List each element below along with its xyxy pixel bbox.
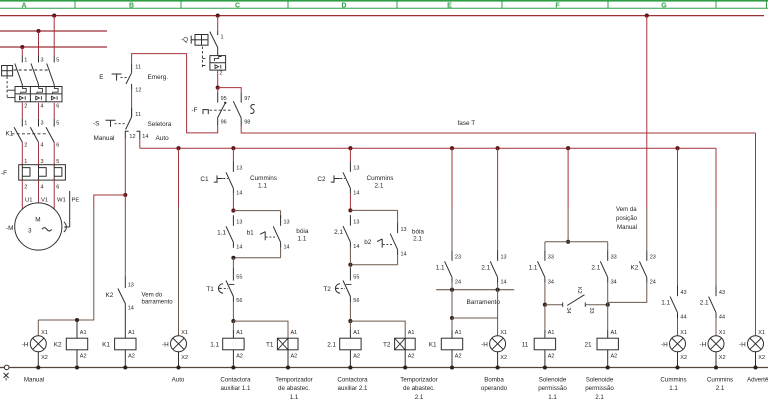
auxiliary contact 2.1 13/14 (bomba) xyxy=(481,250,506,285)
wire E 12 to -S 11 xyxy=(131,90,133,117)
svg-text:6: 6 xyxy=(56,184,59,190)
svg-text:M: M xyxy=(35,217,40,224)
svg-text:2.1: 2.1 xyxy=(327,341,336,348)
svg-text:K2: K2 xyxy=(576,287,582,294)
wire L1 to -Q xyxy=(217,16,219,31)
svg-text:11: 11 xyxy=(135,112,141,118)
svg-text:K1: K1 xyxy=(429,341,437,348)
svg-text:34: 34 xyxy=(611,279,617,285)
junction L2 to -Q1 xyxy=(36,29,40,33)
junction coil split 2.1/T2 xyxy=(348,319,352,323)
junction auto bus to C2 branch xyxy=(348,146,352,150)
svg-text:-F: -F xyxy=(191,107,197,114)
svg-text:-H: -H xyxy=(481,341,488,348)
svg-text:b1: b1 xyxy=(247,229,255,236)
svg-text:Manual: Manual xyxy=(94,135,115,142)
wire contact to lamp cummins 1.1 xyxy=(677,318,679,336)
svg-text:43: 43 xyxy=(719,290,725,296)
svg-text:5: 5 xyxy=(56,58,59,64)
junction barramento right xyxy=(496,288,500,292)
wire fase T drop to advert lamp xyxy=(755,133,757,207)
wire -F 96 to emergency riser xyxy=(132,54,218,133)
auxiliary contact K2 33/34 horizontal xyxy=(545,287,608,314)
junction bus x=288 xyxy=(286,365,290,369)
junction K2 row right xyxy=(606,303,610,307)
wire contact 1.1 to barramento xyxy=(451,283,453,290)
auxiliary contact 1.1 43/44 (cummins) xyxy=(661,286,686,321)
svg-text:55: 55 xyxy=(236,275,242,281)
pushbutton contact C2 xyxy=(331,161,360,196)
wire contact 2.1-34 to coil 21 xyxy=(607,283,609,330)
emergency pushbutton E xyxy=(99,64,168,94)
svg-text:14: 14 xyxy=(236,244,242,250)
timer contact T1 55/56 xyxy=(206,268,242,304)
svg-text:X1: X1 xyxy=(758,330,765,336)
wire L3 to -Q1 pole 1 xyxy=(21,47,23,56)
svg-text:56: 56 xyxy=(236,298,242,304)
timer contact T2 55/56 xyxy=(323,268,359,304)
wire K1 pin 2 to -F1 pin 1 xyxy=(21,142,23,164)
wire auto bus to solenoide node xyxy=(567,148,569,207)
svg-text:A2: A2 xyxy=(548,354,555,360)
junction bus x=405.2 xyxy=(403,365,407,369)
wire barramento xyxy=(436,289,514,291)
junction bus x=452 xyxy=(450,365,454,369)
svg-text:2.1: 2.1 xyxy=(595,394,604,401)
contactor main contacts K1 xyxy=(6,119,60,149)
svg-text:A1: A1 xyxy=(548,330,555,336)
svg-text:43: 43 xyxy=(680,290,686,296)
wire -S 12 down to manual node xyxy=(124,139,126,195)
svg-text:97: 97 xyxy=(244,96,250,102)
svg-text:Auto: Auto xyxy=(172,376,185,383)
svg-text:24: 24 xyxy=(650,279,656,285)
junction auto bus to solenoide branch xyxy=(566,146,570,150)
svg-text:PE: PE xyxy=(72,198,80,204)
svg-text:bóia: bóia xyxy=(296,228,309,235)
svg-text:K2: K2 xyxy=(631,264,639,271)
svg-text:A2: A2 xyxy=(236,354,243,360)
svg-text:24: 24 xyxy=(455,279,461,285)
junction bus x=77 xyxy=(75,365,79,369)
svg-text:B: B xyxy=(129,2,134,9)
svg-text:Cummins: Cummins xyxy=(250,175,277,182)
svg-text:13: 13 xyxy=(284,220,290,226)
svg-text:Manual: Manual xyxy=(24,376,44,383)
svg-text:14: 14 xyxy=(142,134,148,140)
wire phase line L3 xyxy=(0,46,107,48)
svg-text:-F: -F xyxy=(1,170,7,177)
svg-text:1: 1 xyxy=(24,159,27,165)
auxiliary contact K2 23/24 xyxy=(631,250,656,285)
svg-text:23: 23 xyxy=(455,255,461,261)
auxiliary contact 2.1 13/14 xyxy=(334,215,359,250)
wire parallel loop bottom xyxy=(280,248,282,258)
junction parallel top 2.1/b2 xyxy=(348,208,352,212)
svg-text:95: 95 xyxy=(221,96,227,102)
wire manual lamp stub xyxy=(37,320,39,336)
svg-text:A2: A2 xyxy=(291,354,298,360)
svg-text:12: 12 xyxy=(129,134,135,140)
svg-text:K2: K2 xyxy=(106,292,114,299)
svg-text:Emerg.: Emerg. xyxy=(148,74,169,81)
wire L2 to -Q1 pole 2 xyxy=(38,31,40,56)
svg-text:A2: A2 xyxy=(611,354,618,360)
svg-text:21: 21 xyxy=(585,341,593,348)
indicator lamp -H cummins 1.1 xyxy=(661,330,687,368)
svg-text:11: 11 xyxy=(135,64,141,70)
svg-text:A1: A1 xyxy=(236,330,243,336)
svg-text:X2: X2 xyxy=(181,355,188,361)
svg-text:Cummins: Cummins xyxy=(367,175,394,182)
wire parallel loop top 2 xyxy=(350,209,397,211)
svg-text:A2: A2 xyxy=(80,354,87,360)
junction auto bus to C1 branch xyxy=(231,146,235,150)
wire T1 56 to coil node xyxy=(232,302,234,321)
indicator lamp -H bomba operando xyxy=(481,330,507,368)
auxiliary contact 2.1 33/34 (solenoide) xyxy=(591,250,616,285)
wire to timer contact T1 xyxy=(232,258,234,268)
svg-text:2.1: 2.1 xyxy=(716,385,725,392)
wire L1 to K2 contact xyxy=(646,16,648,207)
junction parallel bottom 2.1/b2 xyxy=(348,263,352,267)
wire parallel loop bottom 2 xyxy=(397,255,399,265)
svg-text:X2: X2 xyxy=(719,355,726,361)
svg-text:-H: -H xyxy=(739,341,746,348)
svg-text:X1: X1 xyxy=(181,330,188,336)
junction bus x=125.3 xyxy=(123,365,127,369)
auxiliary contact 2.1 43/44 (cummins) xyxy=(700,286,725,321)
svg-text:Contactora: Contactora xyxy=(220,376,251,383)
svg-text:2: 2 xyxy=(24,143,27,149)
svg-text:U1: U1 xyxy=(25,198,33,204)
svg-text:Vem da: Vem da xyxy=(616,206,637,213)
indicator lamp -H advertencia xyxy=(739,330,765,368)
svg-text:Contactora: Contactora xyxy=(337,376,368,383)
svg-text:posição: posição xyxy=(616,215,638,222)
svg-text:14: 14 xyxy=(128,306,134,312)
svg-text:K2: K2 xyxy=(54,341,62,348)
svg-text:13: 13 xyxy=(236,166,242,172)
wire jog to bomba lamp xyxy=(452,317,498,319)
wire auto bus to contact 2.1 (cummins) xyxy=(715,148,717,207)
svg-text:14: 14 xyxy=(353,244,359,250)
junction bus x=544.9 xyxy=(543,365,547,369)
svg-text:55: 55 xyxy=(353,275,359,281)
svg-text:33: 33 xyxy=(611,255,617,261)
svg-text:T1: T1 xyxy=(266,341,274,348)
svg-text:A2: A2 xyxy=(408,354,415,360)
junction -F aux split xyxy=(216,86,220,90)
indicator lamp -H cummins 2.1 xyxy=(700,330,726,368)
pushbutton contact C1 xyxy=(214,161,243,196)
wire C1 to parallel node xyxy=(232,194,234,211)
timer coil T2 xyxy=(383,330,415,367)
svg-text:4: 4 xyxy=(41,143,44,149)
svg-text:T2: T2 xyxy=(323,286,331,293)
wire to bomba lamp xyxy=(497,290,499,336)
wire phase line L1 xyxy=(0,15,764,17)
wire neutral bus xyxy=(9,367,768,369)
svg-text:3: 3 xyxy=(41,159,44,165)
svg-text:1.1: 1.1 xyxy=(298,235,307,242)
svg-text:2.1: 2.1 xyxy=(413,236,422,243)
svg-text:13: 13 xyxy=(353,166,359,172)
solenoid coil 11 xyxy=(522,330,556,368)
junction parallel bottom 1.1/b1 xyxy=(231,256,235,260)
svg-text:A1: A1 xyxy=(128,330,135,336)
svg-text:1: 1 xyxy=(221,35,224,41)
svg-text:3: 3 xyxy=(41,58,44,64)
svg-text:Seletora: Seletora xyxy=(148,121,172,128)
svg-text:23: 23 xyxy=(650,255,656,261)
junction manual node xyxy=(123,193,127,197)
junction auto bus to cummins 1.1 branch xyxy=(675,146,679,150)
junction K2 row left xyxy=(543,303,547,307)
junction bus x=38.3 xyxy=(36,365,40,369)
svg-text:b2: b2 xyxy=(364,239,372,246)
junction auto bus to bomba 2.1 branch xyxy=(496,146,500,150)
junction L3 to -Q1 xyxy=(20,45,24,49)
svg-text:E: E xyxy=(99,74,103,81)
contactor coil K1 xyxy=(102,330,136,368)
svg-text:56: 56 xyxy=(353,298,359,304)
svg-text:A2: A2 xyxy=(128,354,135,360)
svg-text:Auto: Auto xyxy=(156,135,170,142)
svg-text:X2: X2 xyxy=(500,355,507,361)
contactor coil 1.1 xyxy=(210,330,244,368)
svg-text:2: 2 xyxy=(220,71,223,77)
svg-text:14: 14 xyxy=(401,252,407,258)
svg-text:A2: A2 xyxy=(455,354,462,360)
wire coil node to timer coil T1 xyxy=(233,321,288,338)
svg-text:X1: X1 xyxy=(680,330,687,336)
wire to coil 11 xyxy=(544,305,546,330)
svg-text:D: D xyxy=(341,2,346,9)
junction coil split 1.1/T1 xyxy=(231,319,235,323)
junction parallel top 1.1/b1 xyxy=(231,209,235,213)
svg-text:13: 13 xyxy=(236,220,242,226)
svg-text:Temporizador: Temporizador xyxy=(275,376,312,383)
svg-text:1: 1 xyxy=(24,58,27,64)
wire -F1 pin 6 to motor xyxy=(53,180,55,210)
svg-text:barramento: barramento xyxy=(142,298,174,305)
selector switch -S xyxy=(93,108,172,142)
svg-text:5: 5 xyxy=(56,159,59,165)
circuit breaker -Q1 xyxy=(2,56,62,110)
svg-text:2: 2 xyxy=(24,104,27,110)
overload relay aux contacts -F xyxy=(191,92,254,125)
wire C2 to parallel node xyxy=(349,194,351,211)
contactor coil K2 xyxy=(54,320,88,368)
svg-text:Solenoide: Solenoide xyxy=(586,376,614,383)
wire to timer contact T2 xyxy=(349,248,351,268)
svg-text:2.1: 2.1 xyxy=(700,300,709,307)
svg-text:44: 44 xyxy=(680,315,686,321)
wire -Q1 pin 4 to K1 pin 3 xyxy=(38,103,40,119)
svg-text:4: 4 xyxy=(41,104,44,110)
circuit breaker -Q xyxy=(181,31,226,77)
wire fase T xyxy=(241,126,755,134)
junction K1 coil / lamp xyxy=(450,316,454,320)
auxiliary contact 1.1 13/14 xyxy=(217,215,242,250)
contactor coil 2.1 xyxy=(327,330,361,368)
svg-text:X2: X2 xyxy=(758,355,765,361)
svg-text:A2: A2 xyxy=(353,354,360,360)
wire T2 56 to coil node xyxy=(349,302,351,321)
svg-text:Advertência: Advertência xyxy=(747,376,768,383)
svg-text:6: 6 xyxy=(56,104,59,110)
timer coil T1 xyxy=(266,330,298,367)
svg-text:A1: A1 xyxy=(611,330,618,336)
junction manual branch to K2 coil xyxy=(75,318,79,322)
svg-text:14: 14 xyxy=(284,244,290,250)
svg-text:V1: V1 xyxy=(41,198,48,204)
svg-text:X1: X1 xyxy=(719,330,726,336)
wire -Q pin 2 to -F aux xyxy=(217,70,219,88)
svg-text:98: 98 xyxy=(244,120,250,126)
svg-text:Solenoide: Solenoide xyxy=(539,376,567,383)
junction bus x=716 xyxy=(714,365,718,369)
svg-text:1.1: 1.1 xyxy=(529,264,538,271)
svg-text:X1: X1 xyxy=(41,330,48,336)
svg-text:C1: C1 xyxy=(200,176,209,183)
svg-text:fase T: fase T xyxy=(458,120,476,127)
svg-text:5: 5 xyxy=(56,120,59,126)
svg-text:A1: A1 xyxy=(455,330,462,336)
svg-text:de abastec.: de abastec. xyxy=(403,385,435,392)
svg-text:Cummins: Cummins xyxy=(660,376,686,383)
svg-text:Manual: Manual xyxy=(617,224,637,231)
wire manual node to manual lamp branch xyxy=(94,195,126,207)
svg-text:1.1: 1.1 xyxy=(661,300,670,307)
contactor coil K1 (bomba) xyxy=(429,330,463,368)
svg-text:14: 14 xyxy=(501,279,507,285)
wire contact 2.1 to barramento xyxy=(497,283,499,290)
svg-text:de abastec.: de abastec. xyxy=(278,385,310,392)
svg-text:2.1: 2.1 xyxy=(334,229,343,236)
svg-text:11: 11 xyxy=(522,341,529,348)
junction solenoide split xyxy=(566,240,570,244)
wire to -F 97 xyxy=(218,88,242,93)
svg-text:-H: -H xyxy=(661,341,668,348)
svg-text:permissão: permissão xyxy=(538,385,567,392)
junction bus x=607.7 xyxy=(606,365,610,369)
svg-text:3: 3 xyxy=(28,228,32,235)
wire coil node to timer coil T2 xyxy=(350,321,405,338)
svg-text:operando: operando xyxy=(481,385,508,392)
svg-text:auxiliar 1.1: auxiliar 1.1 xyxy=(221,385,251,392)
svg-text:Barramento: Barramento xyxy=(467,299,501,306)
svg-text:2: 2 xyxy=(24,184,27,190)
svg-text:Bomba: Bomba xyxy=(484,376,504,383)
svg-text:1.1: 1.1 xyxy=(210,341,219,348)
wire auto bus to contact 1.1 (bomba) xyxy=(451,148,453,207)
svg-text:-M: -M xyxy=(6,225,13,232)
svg-text:W1: W1 xyxy=(57,198,66,204)
svg-text:96: 96 xyxy=(221,120,227,126)
junction bus x=178.5 xyxy=(176,365,180,369)
svg-text:1.1: 1.1 xyxy=(258,182,267,189)
svg-text:3: 3 xyxy=(41,120,44,126)
svg-text:-S: -S xyxy=(93,120,99,127)
wire -F1 pin 4 to motor xyxy=(38,180,40,203)
junction bus x=755.5 xyxy=(753,365,757,369)
junction auto bus to bomba 1.1 branch xyxy=(450,146,454,150)
junction L1 to -Q1 xyxy=(52,14,56,18)
svg-text:Temporizador: Temporizador xyxy=(400,376,437,383)
svg-text:X1: X1 xyxy=(500,330,507,336)
svg-text:12: 12 xyxy=(135,88,141,94)
svg-text:A: A xyxy=(21,2,26,9)
motor -M xyxy=(6,191,79,250)
wire auto bus to C1 contact xyxy=(232,148,234,161)
svg-text:T2: T2 xyxy=(383,341,391,348)
solenoid coil 21 xyxy=(585,330,619,368)
wire auto bus to contact 2.1 (bomba) xyxy=(497,148,499,207)
svg-text:G: G xyxy=(661,2,667,9)
svg-text:1.1: 1.1 xyxy=(290,394,299,401)
svg-text:1.1: 1.1 xyxy=(548,394,557,401)
svg-text:-H: -H xyxy=(700,341,707,348)
wire parallel loop top xyxy=(233,210,280,212)
float switch contact b2 xyxy=(377,223,407,258)
indicator lamp -H auto xyxy=(162,330,188,368)
svg-text:2.1: 2.1 xyxy=(591,264,600,271)
junction auto bus to H-auto lamp xyxy=(176,146,180,150)
svg-text:44: 44 xyxy=(719,315,725,321)
svg-text:1.1: 1.1 xyxy=(669,385,678,392)
svg-text:F: F xyxy=(555,2,560,9)
svg-text:14: 14 xyxy=(236,190,242,196)
wire -S 14 to auto bus xyxy=(139,139,141,148)
wire to -F 95 xyxy=(217,88,219,93)
svg-text:C: C xyxy=(235,2,240,9)
svg-text:14: 14 xyxy=(353,190,359,196)
auxiliary contact K2 13/14 xyxy=(106,276,134,330)
svg-text:13: 13 xyxy=(128,283,134,289)
svg-text:2.1: 2.1 xyxy=(375,182,384,189)
svg-text:A1: A1 xyxy=(408,330,415,336)
svg-text:1.1: 1.1 xyxy=(436,264,445,271)
svg-text:X2: X2 xyxy=(41,355,48,361)
svg-text:1.1: 1.1 xyxy=(217,229,226,236)
float switch contact b1 xyxy=(260,215,290,250)
wire solenoide top rail xyxy=(545,241,608,243)
wire auto bus to H-auto lamp xyxy=(178,148,180,207)
svg-text:13: 13 xyxy=(353,219,359,225)
svg-text:A1: A1 xyxy=(80,330,87,336)
junction barramento left xyxy=(450,288,454,292)
svg-text:auxiliar 2.1: auxiliar 2.1 xyxy=(338,385,368,392)
wire auto bus xyxy=(140,147,716,149)
auxiliary contact 1.1 23/24 (bomba) xyxy=(436,250,461,285)
wire auto bus to contact 1.1 (cummins) xyxy=(677,148,679,207)
svg-text:13: 13 xyxy=(501,255,507,261)
wire K1 pin 4 to -F1 pin 3 xyxy=(38,142,40,164)
svg-text:4: 4 xyxy=(41,184,44,190)
svg-text:bóia: bóia xyxy=(412,228,425,235)
svg-text:C2: C2 xyxy=(317,176,326,183)
svg-text:A1: A1 xyxy=(353,330,360,336)
wire K2 24 to solenoid row xyxy=(608,283,647,303)
auxiliary contact 1.1 33/34 (solenoide) xyxy=(529,250,554,285)
svg-text:Vem do: Vem do xyxy=(142,291,163,298)
svg-text:2.1: 2.1 xyxy=(481,264,490,271)
svg-text:6: 6 xyxy=(56,143,59,149)
wire auto bus to C2 contact xyxy=(349,148,351,161)
junction bus x=677.5 xyxy=(675,365,679,369)
